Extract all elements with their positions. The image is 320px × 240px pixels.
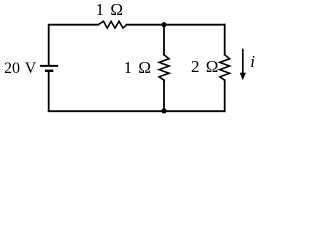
wire top-left segment (top-left corner to R1 left lead) xyxy=(49,25,98,65)
label V1 value 20 V xyxy=(4,60,36,78)
wire right-bottom segment (R3 bottom lead to bottom-right corner) xyxy=(224,80,226,111)
wire bottom segment (bottom-right corner to bottom-left corner) xyxy=(49,110,225,112)
current arrow i xyxy=(240,49,246,80)
node A junction dot xyxy=(161,22,166,27)
voltage source V1 20V battery plates xyxy=(40,66,58,71)
resistor R1 1ohm horizontal zigzag xyxy=(98,21,126,28)
resistor R3 2ohm vertical zigzag xyxy=(220,55,230,80)
wire middle-top segment (node A down to R2 top lead) xyxy=(163,25,165,55)
node B junction dot xyxy=(161,108,166,113)
wire left-bottom segment (bottom-left corner up to battery minus plate) xyxy=(48,72,50,111)
wire middle-bottom segment (R2 bottom lead to node B) xyxy=(163,80,165,111)
wire right-top segment (top-right corner down to R3 top lead) xyxy=(224,25,226,55)
label R2 value 1 ohm xyxy=(124,58,151,78)
label R1 value 1 ohm xyxy=(96,0,123,20)
wire top-right segment (R1 right lead through node A to top-right corner) xyxy=(127,24,225,26)
label R3 value 2 ohm xyxy=(191,57,218,77)
label current i xyxy=(250,52,255,72)
resistor R2 1ohm vertical zigzag xyxy=(159,55,169,80)
